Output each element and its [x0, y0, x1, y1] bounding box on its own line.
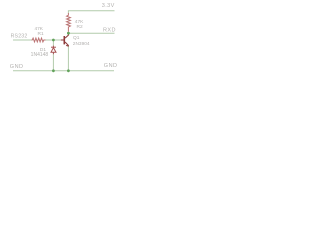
svg-text:RS232: RS232	[11, 34, 28, 40]
svg-text:2N3904: 2N3904	[73, 41, 90, 47]
svg-text:GND: GND	[104, 63, 118, 69]
svg-text:R1: R1	[38, 31, 44, 37]
svg-text:R2: R2	[77, 24, 83, 30]
svg-text:3.3V: 3.3V	[102, 3, 115, 9]
svg-text:Q1: Q1	[73, 35, 80, 41]
svg-text:1N4148: 1N4148	[31, 52, 49, 58]
svg-text:GND: GND	[10, 64, 24, 70]
svg-text:RXD: RXD	[103, 27, 116, 33]
